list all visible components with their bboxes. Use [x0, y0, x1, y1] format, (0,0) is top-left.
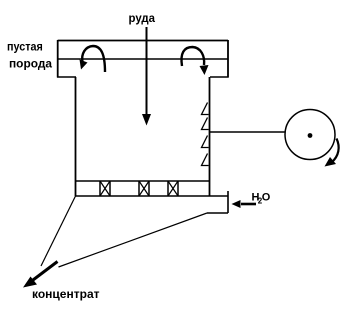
- svg-text:O: O: [262, 192, 271, 204]
- svg-text:концентрат: концентрат: [32, 287, 100, 301]
- tank right wall: [209, 77, 211, 196]
- aerator cell 3: [168, 181, 178, 196]
- aerator strip top: [76, 180, 210, 182]
- drive shaft: [210, 131, 285, 133]
- right overflow arrow: [181, 47, 208, 75]
- tank left wall: [75, 77, 77, 196]
- trough right wall: [227, 40, 229, 78]
- impeller vane 1: [202, 103, 209, 115]
- aerator cell 1: [100, 181, 110, 196]
- label пустая порода: [7, 40, 52, 71]
- impeller vane 3: [202, 136, 209, 148]
- aerator cell 2: [139, 181, 149, 196]
- trough top wall: [58, 40, 228, 42]
- trough right step: [210, 76, 229, 78]
- ore feed arrow: [142, 27, 151, 126]
- concentrate arrow: [23, 262, 58, 288]
- trough left wall: [57, 40, 59, 78]
- label H2O: [252, 192, 271, 206]
- motor rotation arrow: [325, 139, 339, 167]
- motor pulley circle: [285, 110, 335, 160]
- H2O arrow: [232, 200, 257, 208]
- svg-text:порода: порода: [9, 57, 52, 71]
- aerator strip bottom: [76, 195, 229, 197]
- impeller vane 4: [202, 154, 209, 166]
- water inlet channel wall: [227, 191, 229, 213]
- trough left step: [57, 76, 76, 78]
- motor axle dot: [308, 133, 313, 138]
- left overflow arrow: [80, 46, 106, 72]
- impeller vane 2: [202, 118, 209, 130]
- left funnel wall: [41, 196, 76, 266]
- trough divider line: [58, 58, 228, 60]
- right funnel wall: [59, 213, 208, 267]
- svg-text:пустая: пустая: [7, 40, 43, 54]
- water inlet channel bottom: [207, 212, 228, 214]
- svg-text:руда: руда: [129, 11, 156, 25]
